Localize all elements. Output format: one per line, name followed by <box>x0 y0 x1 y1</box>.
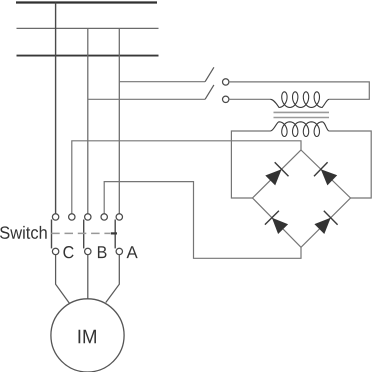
switch S1 contact circle (pole 1) <box>223 79 229 85</box>
wire: pole A to motor <box>106 255 120 303</box>
wire: feed to disconnect switch pole 2 <box>88 98 205 100</box>
diode D3 (bottom-to-left) <box>265 211 288 234</box>
changeover switch: top terminal circle 4 (DC-) <box>101 214 107 220</box>
switch S1 blade (pole 2, open) <box>205 85 214 99</box>
diode D4 (bottom-to-right) <box>314 211 337 234</box>
transformer T1 core <box>274 112 330 117</box>
label Switch <box>0 226 47 239</box>
changeover switch: top terminal circle 1 <box>52 214 58 220</box>
wire: phase drop from L2 to switch terminal 3 <box>87 28 89 213</box>
switch mechanical linkage (dashed bar) <box>51 232 110 234</box>
induction motor IM <box>51 299 124 372</box>
wire: switch pole 2 to transformer primary left end <box>229 98 271 100</box>
changeover switch: top terminal circle 5 <box>116 214 122 220</box>
label B <box>98 246 107 258</box>
wire: bridge DC- (bottom node) to switch terminal 4 <box>104 182 301 259</box>
wire: pole C to motor <box>56 255 70 304</box>
bridge rectifier diamond wiring <box>253 150 351 247</box>
diode D2 (right-to-top) <box>314 162 337 185</box>
wire: phase drop from L2 to switch terminal 5 <box>118 28 120 213</box>
bus line L3 (bottom phase bus) <box>17 55 159 57</box>
wire: feed to disconnect switch pole 1 <box>119 81 205 83</box>
wire: pole B to motor <box>87 255 89 299</box>
switch blade pole B <box>83 220 85 249</box>
wire: switch pole 1 to transformer primary right end (top run) <box>229 82 369 99</box>
wire: bridge DC+ (top node) to switch terminal 2 <box>72 141 301 214</box>
switch bottom contact circle pole C <box>52 248 58 254</box>
label C <box>63 246 73 258</box>
label IM <box>79 330 96 343</box>
diode D1 (left-to-top) <box>265 162 288 185</box>
switch bottom contact circle pole A <box>116 248 122 254</box>
switch bottom contact circle pole B <box>85 248 91 254</box>
transformer T1 secondary winding <box>271 122 330 137</box>
changeover switch: top terminal circle 2 (DC+) <box>69 214 75 220</box>
wire: phase drop from L1 to switch terminal 1 <box>55 3 57 214</box>
wire: secondary left end down to bridge AC left node <box>231 131 270 198</box>
bus line L2 (middle phase bus) <box>17 27 159 29</box>
wire: secondary right end down to bridge AC right node <box>329 131 371 198</box>
changeover switch: top terminal circle 3 <box>85 214 91 220</box>
switch S1 blade (pole 1, open) <box>205 67 214 81</box>
label A <box>127 246 138 258</box>
switch blade pole A <box>114 220 116 249</box>
switch blade pole C <box>51 220 53 249</box>
transformer T1 primary winding <box>271 92 330 108</box>
switch S1 contact circle (pole 2) <box>223 96 229 102</box>
bus line L1 (top phase bus) <box>16 1 157 3</box>
switch linkage dark end segment <box>111 232 117 234</box>
